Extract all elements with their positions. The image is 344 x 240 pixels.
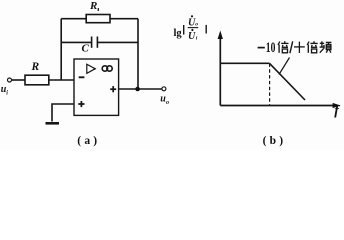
svg-text:o: o (166, 100, 169, 106)
svg-text:(b): (b) (263, 135, 287, 147)
svg-text:i: i (6, 91, 8, 97)
svg-text:i: i (196, 36, 198, 42)
svg-text:10: 10 (266, 40, 276, 56)
svg-text:o: o (195, 22, 198, 28)
svg-text:C: C (82, 43, 90, 55)
svg-text:R: R (31, 61, 40, 73)
svg-text:R: R (89, 0, 97, 12)
svg-text:(a): (a) (77, 135, 100, 147)
svg-text:lg: lg (174, 28, 183, 39)
